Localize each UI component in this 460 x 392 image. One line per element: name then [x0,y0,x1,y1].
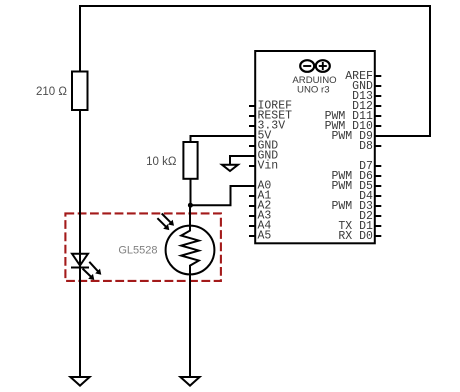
pin label Vin [258,160,279,173]
pin label D8 [359,140,373,153]
pin label RESET [258,110,293,123]
label: 10k value [146,156,177,168]
label: UNO r3 subtitle [297,84,330,95]
resistor 210 ohm [72,72,88,111]
pin label PWM D3 [331,200,373,213]
pin label PWM D5 [331,180,373,193]
pin label AREF [345,70,373,83]
Arduino logo [300,60,330,72]
pin label 5V [258,130,272,143]
svg-text:10 kΩ: 10 kΩ [146,156,177,168]
pin label IOREF [258,100,293,113]
pin label GND [352,80,373,93]
pin label D4 [359,190,373,203]
svg-text:A5: A5 [258,230,272,243]
highlight box (red dashed) around LED and photoresistor [65,213,221,281]
svg-text:GL5528: GL5528 [118,245,157,257]
wire: GND pin to ground arrow [230,156,255,164]
ground (at Arduino GND pin) [222,165,238,171]
pin label PWM D9 [331,130,373,143]
op-amp U1: Arduino UNO r3 body [255,51,375,243]
wire: junction down through photoresistor to ground [189,205,191,377]
pin label A3 [258,210,272,223]
pin label GND [258,150,279,163]
wire: 5V to 10k resistor top [191,136,255,142]
label: ARDUINO title [292,75,336,86]
label: GL5528 part number [118,245,157,257]
wire: 10k resistor bottom to junction [190,179,192,206]
svg-text:RX D0: RX D0 [338,230,373,243]
pin label 3.3V [258,120,286,133]
Arduino right pin stubs [375,76,382,236]
wire: Vcc top rail from 210 ohm resistor up, across, down to D9 [80,6,430,136]
svg-text:D8: D8 [359,140,373,153]
Arduino left pin stubs [249,106,256,236]
resistor 10k [183,142,197,179]
node: junction of 10k, A0 and photoresistor [188,203,193,208]
LED D1 [71,254,101,280]
wire: junction to A0 [191,186,255,205]
pin label PWM D10 [325,120,373,133]
photoresistor GL5528 [157,214,214,275]
ground (below LED) [70,377,89,386]
pin label D13 [352,90,373,103]
svg-text:210 Ω: 210 Ω [36,86,67,98]
pin label A0 [258,180,272,193]
pin label D2 [359,210,373,223]
pin label PWM D6 [331,170,373,183]
svg-text:UNO r3: UNO r3 [297,84,330,95]
pin label A4 [258,220,272,233]
wire: 210 ohm resistor bottom down through LED to ground [79,110,81,377]
svg-text:Vin: Vin [258,160,279,173]
label: 210 ohm value [36,86,67,98]
pin label A5 [258,230,272,243]
pin label A2 [258,200,272,213]
pin label D12 [352,100,373,113]
pin label RX D0 [338,230,373,243]
pin label PWM D11 [325,110,373,123]
pin label GND [258,140,279,153]
ground (below photoresistor) [180,377,199,386]
pin label D7 [359,160,373,173]
pin label TX D1 [338,220,373,233]
pin label A1 [258,190,272,203]
